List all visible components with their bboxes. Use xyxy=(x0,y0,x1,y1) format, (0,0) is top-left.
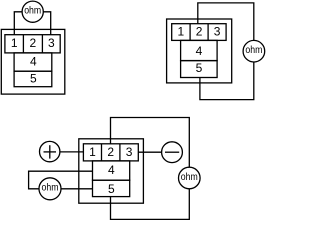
pin 4 box xyxy=(14,53,52,71)
ohmmeter M4 (right) xyxy=(179,167,201,189)
terminal row pins 1-3 xyxy=(172,24,226,41)
wire xyxy=(111,118,190,168)
terminal row pins 1-3 xyxy=(83,144,138,161)
svg-text:4: 4 xyxy=(196,44,203,58)
svg-text:ohm: ohm xyxy=(24,6,41,17)
pin divider xyxy=(41,35,43,53)
pin 4 box xyxy=(93,161,130,180)
pin divider xyxy=(119,144,121,161)
wire xyxy=(60,151,83,153)
ohmmeter M3 (left) xyxy=(39,178,61,200)
svg-text:3: 3 xyxy=(214,25,221,39)
svg-text:5: 5 xyxy=(30,72,37,86)
svg-text:1: 1 xyxy=(89,145,96,159)
connector housing xyxy=(1,29,65,94)
pin 5 box xyxy=(181,61,218,78)
svg-text:1: 1 xyxy=(178,25,185,39)
svg-text:ohm: ohm xyxy=(42,183,59,194)
svg-text:4: 4 xyxy=(108,163,115,177)
pin 5 box xyxy=(93,180,130,196)
wire xyxy=(138,151,161,153)
pin divider xyxy=(207,24,209,41)
svg-text:ohm: ohm xyxy=(181,172,198,183)
connector housing xyxy=(167,19,232,83)
svg-text:4: 4 xyxy=(30,54,37,68)
wire xyxy=(29,171,93,189)
wire xyxy=(200,62,254,100)
svg-text:1: 1 xyxy=(11,36,18,50)
wire xyxy=(198,3,254,40)
wire xyxy=(111,189,190,220)
wire xyxy=(14,12,22,35)
terminal row pins 1-3 xyxy=(5,35,60,53)
pin divider xyxy=(101,144,103,161)
svg-text:3: 3 xyxy=(48,36,55,50)
ohmmeter M1 xyxy=(22,1,43,22)
svg-text:ohm: ohm xyxy=(245,45,262,56)
battery negative terminal xyxy=(162,142,183,163)
pin divider xyxy=(189,24,191,41)
connector housing xyxy=(79,139,144,203)
wire xyxy=(43,12,50,35)
pin 4 box xyxy=(181,40,218,60)
ohmmeter M2 xyxy=(243,40,265,62)
pin divider xyxy=(22,35,24,53)
svg-text:5: 5 xyxy=(108,182,115,196)
svg-text:2: 2 xyxy=(196,25,203,39)
wire xyxy=(61,188,93,190)
svg-text:2: 2 xyxy=(107,145,114,159)
pin 5 box xyxy=(14,71,52,87)
svg-text:5: 5 xyxy=(196,61,203,75)
svg-text:2: 2 xyxy=(30,36,37,50)
svg-text:3: 3 xyxy=(126,145,133,159)
battery positive terminal xyxy=(40,141,60,161)
